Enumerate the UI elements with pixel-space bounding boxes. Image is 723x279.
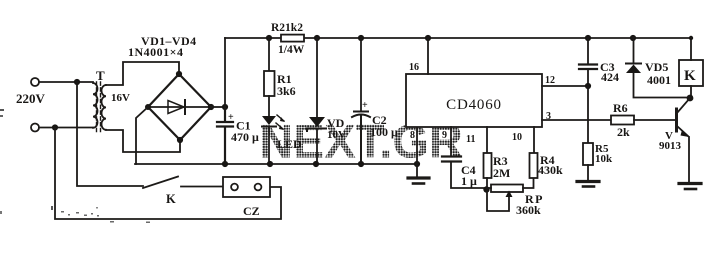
node C1 bottom xyxy=(222,161,228,167)
svg-text:16V: 16V xyxy=(111,92,130,104)
wire R3 bottom xyxy=(486,178,488,189)
pin 12 wire xyxy=(542,85,588,87)
zener VD triangle xyxy=(309,117,325,127)
resistor R6 xyxy=(611,116,634,125)
ground symbol pin8 xyxy=(408,176,429,179)
wire C3 bottom xyxy=(587,69,589,86)
svg-text:10: 10 xyxy=(512,132,522,143)
node collector xyxy=(687,95,694,102)
svg-text:9: 9 xyxy=(442,130,447,141)
wire positive up to top rail xyxy=(224,38,226,107)
node rail C3 xyxy=(585,35,591,41)
wire C4 bottom xyxy=(451,162,486,188)
top rail xyxy=(225,37,691,39)
svg-text:K: K xyxy=(166,192,176,206)
capacitor C1 xyxy=(217,107,233,164)
wire VD5 top xyxy=(633,38,635,63)
op IC U1 CD4060 xyxy=(406,74,542,127)
svg-text:CZ: CZ xyxy=(243,204,260,218)
zener VD bar xyxy=(307,129,326,132)
node C2 bottom xyxy=(358,161,364,167)
node C1 top xyxy=(222,104,228,110)
svg-text:1N4001×4: 1N4001×4 xyxy=(128,45,184,59)
wire RP right to R4 xyxy=(523,178,534,188)
svg-text:220V: 220V xyxy=(16,91,46,106)
node timing xyxy=(483,186,489,192)
switch K blade xyxy=(143,177,178,189)
node rail VD xyxy=(314,35,320,41)
capacitor C4 xyxy=(442,157,461,162)
node bridge right xyxy=(208,104,214,110)
wire live to transformer xyxy=(39,81,93,83)
svg-text:K: K xyxy=(684,68,696,84)
svg-text:3k6: 3k6 xyxy=(277,84,296,98)
pin 9 wire xyxy=(450,127,452,156)
svg-text:9013: 9013 xyxy=(659,140,682,152)
svg-text:1 μ: 1 μ xyxy=(461,174,477,188)
socket CZ box xyxy=(223,177,270,197)
pin 11 wire xyxy=(486,127,488,153)
node rail corner xyxy=(689,36,693,40)
node live junction xyxy=(74,79,80,85)
diode VD5 triangle xyxy=(626,65,641,74)
resistor R4 xyxy=(530,153,538,178)
wire RP left xyxy=(487,187,491,189)
svg-text:11: 11 xyxy=(466,134,475,145)
bridge rectifier VD1-VD4 xyxy=(148,74,211,140)
capacitor C2 xyxy=(352,112,370,165)
node VD bottom xyxy=(313,161,319,167)
resistor R5 xyxy=(583,143,593,165)
svg-text:2k: 2k xyxy=(617,125,630,139)
node pin12 C3 R5 xyxy=(585,83,591,89)
node bridge top xyxy=(176,71,182,77)
wire rail to relay xyxy=(690,38,692,60)
svg-text:LED: LED xyxy=(277,137,302,151)
node rail R1 xyxy=(266,35,272,41)
wire R5 bottom xyxy=(587,165,589,180)
pin 10 wire xyxy=(533,127,535,153)
wire VD top xyxy=(316,38,318,117)
svg-text:100 μ: 100 μ xyxy=(370,125,398,139)
wire R1 to LED xyxy=(268,96,270,116)
resistor R1 xyxy=(264,71,275,96)
pin 3 wire xyxy=(542,119,611,121)
wire neutral down and along bottom to socket xyxy=(55,128,281,220)
svg-text:+: + xyxy=(362,100,368,111)
svg-text:16: 16 xyxy=(409,62,419,73)
wire bridge negative to ground rail xyxy=(136,107,148,164)
wire relay to collector xyxy=(690,86,692,98)
bridge diode bar xyxy=(184,100,186,114)
wire switch to socket xyxy=(181,186,223,188)
wire VD bottom xyxy=(316,129,318,164)
resistor R3 xyxy=(484,153,492,178)
node LED bottom xyxy=(267,161,273,167)
ground symbol R5 xyxy=(577,180,599,183)
svg-text:10V: 10V xyxy=(327,129,346,141)
transformer T core xyxy=(97,82,101,133)
resistor R2 xyxy=(281,35,304,42)
svg-text:2M: 2M xyxy=(493,166,510,180)
node neutral junction xyxy=(52,124,58,130)
node rail C2 xyxy=(358,35,364,41)
wire R1 top xyxy=(268,38,270,71)
node rail VD5 xyxy=(630,35,636,41)
svg-text:VD5: VD5 xyxy=(645,60,668,74)
svg-text:R21k2: R21k2 xyxy=(271,22,303,34)
svg-text:470 μ: 470 μ xyxy=(231,130,259,144)
potentiometer RP body xyxy=(491,185,523,193)
wire emitter down xyxy=(688,137,690,182)
svg-text:4001: 4001 xyxy=(647,73,671,87)
terminal 220V live xyxy=(31,78,39,86)
capacitor C3 xyxy=(579,65,597,70)
svg-text:T: T xyxy=(96,68,105,83)
ground symbol emitter xyxy=(679,182,701,185)
transformer T primary winding xyxy=(93,83,98,128)
wire secondary top to bridge xyxy=(106,62,179,85)
wire neutral to transformer xyxy=(39,127,93,129)
wire pin8 to ground xyxy=(416,127,418,176)
LED diode xyxy=(262,116,276,125)
svg-text:8: 8 xyxy=(410,130,415,141)
svg-text:12: 12 xyxy=(545,75,555,86)
svg-text:10k: 10k xyxy=(595,153,613,165)
svg-text:424: 424 xyxy=(601,70,619,84)
svg-text:3: 3 xyxy=(546,111,551,122)
LED bar xyxy=(262,126,276,128)
transistor emitter lead xyxy=(677,126,688,136)
LED arrows xyxy=(276,115,284,129)
relay coil K xyxy=(679,60,703,86)
svg-text:VD: VD xyxy=(327,116,345,130)
bridge inner diode line xyxy=(148,106,211,108)
diode VD5 bar xyxy=(626,63,641,65)
bridge diode triangle xyxy=(168,101,184,114)
svg-text:+: + xyxy=(228,112,234,123)
node ground rail end xyxy=(414,161,420,167)
transistor collector lead xyxy=(677,98,690,113)
terminal 220V neutral xyxy=(31,124,39,132)
svg-text:430k: 430k xyxy=(538,163,563,177)
scan speckle noise xyxy=(0,109,150,223)
wire live down to switch xyxy=(77,82,143,186)
wire node to R5 xyxy=(587,86,589,142)
node rail pin16 xyxy=(425,35,431,41)
wire R6 to base xyxy=(634,119,676,121)
svg-text:CD4060: CD4060 xyxy=(446,97,502,113)
ground rail xyxy=(135,163,417,165)
svg-text:360k: 360k xyxy=(516,203,541,217)
wire VD5 bottom to relay node xyxy=(634,73,691,98)
svg-text:1/4W: 1/4W xyxy=(278,44,305,56)
svg-text:R6: R6 xyxy=(613,101,628,115)
wire secondary bottom to bridge xyxy=(106,130,180,152)
RP wiper arrow xyxy=(487,188,509,211)
wire C3 top xyxy=(587,38,589,64)
node bridge left xyxy=(145,104,151,110)
transformer T secondary winding xyxy=(102,85,107,130)
wire C2 top xyxy=(360,38,362,111)
socket CZ contacts xyxy=(231,184,238,191)
wire bridge positive node xyxy=(211,106,225,108)
wire LED bottom xyxy=(268,127,270,164)
transistor V base bar xyxy=(675,109,678,131)
pin 16 wire xyxy=(427,38,429,74)
node bridge bottom xyxy=(177,137,183,143)
